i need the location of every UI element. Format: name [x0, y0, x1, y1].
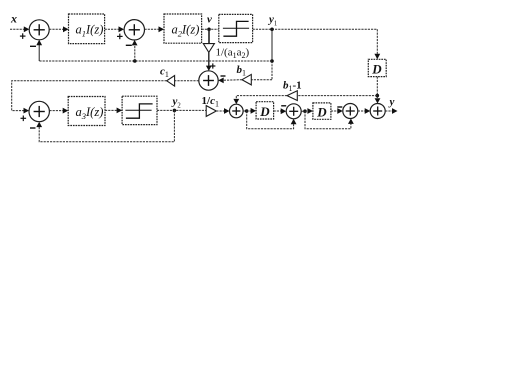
arrowhead into S4 bottom [36, 122, 42, 127]
plus sign at S3 top input [210, 63, 215, 68]
wire a2I(z) to quantizer Q1 [202, 28, 219, 30]
arrowhead into SB left [281, 108, 287, 114]
label b1-1 [283, 80, 302, 94]
arrowhead into Q2 [117, 108, 123, 114]
wire D2 to SC [331, 110, 340, 112]
arrowhead output y [392, 108, 398, 114]
wire up into S1 bottom [38, 43, 40, 61]
label 1/c1 [202, 95, 219, 109]
wire SC to SD [358, 110, 367, 112]
arrowhead into a2I(z) [159, 26, 165, 32]
wire y1 branch to b1 triangle [251, 79, 272, 81]
wire y1 down to feedback row [271, 29, 273, 61]
arrowhead into S4 left [24, 108, 30, 114]
arrowhead into S3 top [206, 66, 212, 71]
node y2 junction dot [173, 109, 177, 113]
svg-text:v: v [207, 14, 212, 26]
label b1 [237, 64, 247, 78]
wire up into S2 bottom [134, 43, 136, 61]
wire triangle to summing junction S3 [208, 52, 210, 68]
gain triangle b1 [242, 74, 251, 85]
wire SA to D1 [243, 110, 253, 112]
minus sign at SC left input [337, 106, 342, 108]
node feedback junction dot [270, 59, 274, 63]
arrowhead into SC bottom [348, 119, 354, 124]
summing junction SC [343, 104, 358, 119]
gain triangle 1/c1 [206, 106, 216, 117]
arrowhead into SA top [233, 99, 239, 104]
wire c1 output to left edge corner [12, 81, 167, 111]
arrowhead into S2 bottom [132, 40, 138, 45]
wire v node down to gain triangle [208, 29, 210, 43]
node y2 label [171, 96, 182, 110]
wire Q2 output to 1/c1 triangle [157, 109, 206, 111]
node v junction dot [207, 28, 211, 32]
summing junction SA [230, 104, 244, 118]
quantizer Q1 [219, 14, 253, 42]
svg-text:a1I(z): a1I(z) [76, 23, 104, 39]
node y output label [388, 96, 395, 108]
wire b1-1 output to SA top [236, 96, 287, 102]
svg-text:y: y [388, 96, 395, 108]
quantizer Q2 [122, 96, 157, 124]
plus sign at S2 left input [117, 34, 123, 40]
svg-text:a3I(z): a3I(z) [76, 105, 104, 121]
wire S4 to a3I(z) [49, 110, 65, 112]
node y1 junction dot [270, 28, 274, 32]
wire 1/c1 to adder SA [216, 110, 226, 112]
wire SB to D2 [301, 110, 310, 112]
plus sign at S1 left input [20, 33, 26, 39]
arrowhead into SD top [375, 98, 381, 103]
wire b1 to S3 [222, 79, 243, 82]
minus sign at SB left input [281, 105, 286, 107]
svg-text:b1-1: b1-1 [283, 80, 302, 94]
arrowhead into SC left [337, 108, 343, 114]
gain triangle 1/(a1a2) [203, 44, 214, 53]
node junction dot on D3-SD wire [376, 94, 380, 98]
wire b1-1 feedback row [297, 95, 377, 97]
node junction dot at S2 feedback [133, 59, 137, 63]
svg-text:D: D [316, 104, 327, 119]
summing junction S2 [124, 20, 144, 40]
summing junction S1 [29, 20, 49, 40]
gain triangle c1 [167, 76, 175, 87]
wire Q1 output to right corner [253, 28, 378, 30]
summing junction SD [370, 104, 385, 119]
plus sign at S4 left input [21, 116, 27, 122]
wire a3I(z) to quantizer Q2 [105, 109, 119, 111]
arrowhead into a3I(z) [63, 108, 68, 114]
arrowhead into summing junction S1 [24, 26, 30, 32]
delay block D1 [256, 102, 274, 119]
wire S3 output left through c1 [175, 80, 199, 82]
svg-text:a2I(z): a2I(z) [172, 23, 200, 39]
node v label [207, 14, 212, 26]
arrowhead into D2 [307, 108, 313, 114]
wire feedback row y61 [39, 60, 272, 62]
arrowhead into S3 right [218, 78, 224, 84]
block a2I(z) [164, 14, 202, 43]
wire S2 to a2I(z) [145, 28, 162, 30]
node junction dot after SA [245, 109, 249, 113]
summing junction S4 [29, 101, 49, 121]
wire S1 to a1I(z) [49, 28, 65, 30]
wire corner down to delay D3 [376, 29, 378, 56]
arrowhead into delay D3 [374, 54, 380, 60]
wire x input [10, 28, 26, 30]
svg-text:D: D [371, 62, 382, 77]
wire D1 to SB [274, 110, 284, 112]
minus sign at S2 bottom input [126, 44, 132, 46]
arrowhead into SB bottom [291, 119, 297, 124]
wire SD output y [385, 110, 394, 112]
label 1/(a1a2) [216, 47, 250, 61]
block a3I(z) [68, 97, 105, 126]
wire a1I(z) to S2 [105, 28, 121, 30]
arrowhead into a1I(z) [63, 26, 69, 32]
node junction dot after SB [303, 109, 307, 113]
arrowhead into SD left [365, 108, 371, 114]
svg-text:x: x [10, 12, 17, 26]
label c1 [160, 65, 169, 79]
node x input label [10, 12, 17, 26]
wire feedforward loop SB output to SC bottom [305, 111, 351, 129]
arrowhead into S1 bottom [36, 40, 42, 45]
gain triangle b1-1 [287, 91, 297, 101]
svg-text:D: D [259, 104, 270, 119]
delay block D3 [368, 59, 386, 76]
arrowhead into SA left [224, 108, 230, 114]
node y1 label [267, 14, 277, 28]
wire y2 feedback loop down and back [39, 110, 174, 141]
wire feedforward loop SA output to SB bottom [247, 111, 294, 129]
minus sign at S4 bottom input [30, 127, 36, 129]
summing junction S3 [199, 71, 218, 90]
block a1I(z) [69, 14, 105, 44]
arrowhead into D1 [251, 108, 257, 114]
wire D3 down to SD top [376, 77, 378, 101]
delay block D2 [313, 103, 331, 119]
minus sign at S1 bottom input [30, 45, 36, 47]
arrowhead into summing junction S2 [119, 26, 125, 32]
summing junction SB [286, 104, 301, 119]
minus sign at S3 right input [221, 75, 226, 77]
